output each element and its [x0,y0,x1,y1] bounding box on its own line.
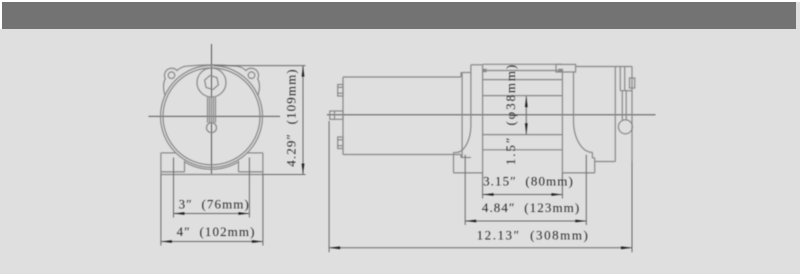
svg-text:4″ (102mm): 4″ (102mm) [177,224,256,239]
svg-text:3″ (76mm): 3″ (76mm) [179,197,250,212]
svg-text:4.84″ (123mm): 4.84″ (123mm) [482,200,580,215]
svg-text:1.5″ (φ38mm): 1.5″ (φ38mm) [503,63,518,165]
svg-text:4.29″ (109mm): 4.29″ (109mm) [284,68,299,166]
svg-text:12.13″ (308mm): 12.13″ (308mm) [477,227,590,242]
svg-text:3.15″ (80mm): 3.15″ (80mm) [483,174,574,189]
